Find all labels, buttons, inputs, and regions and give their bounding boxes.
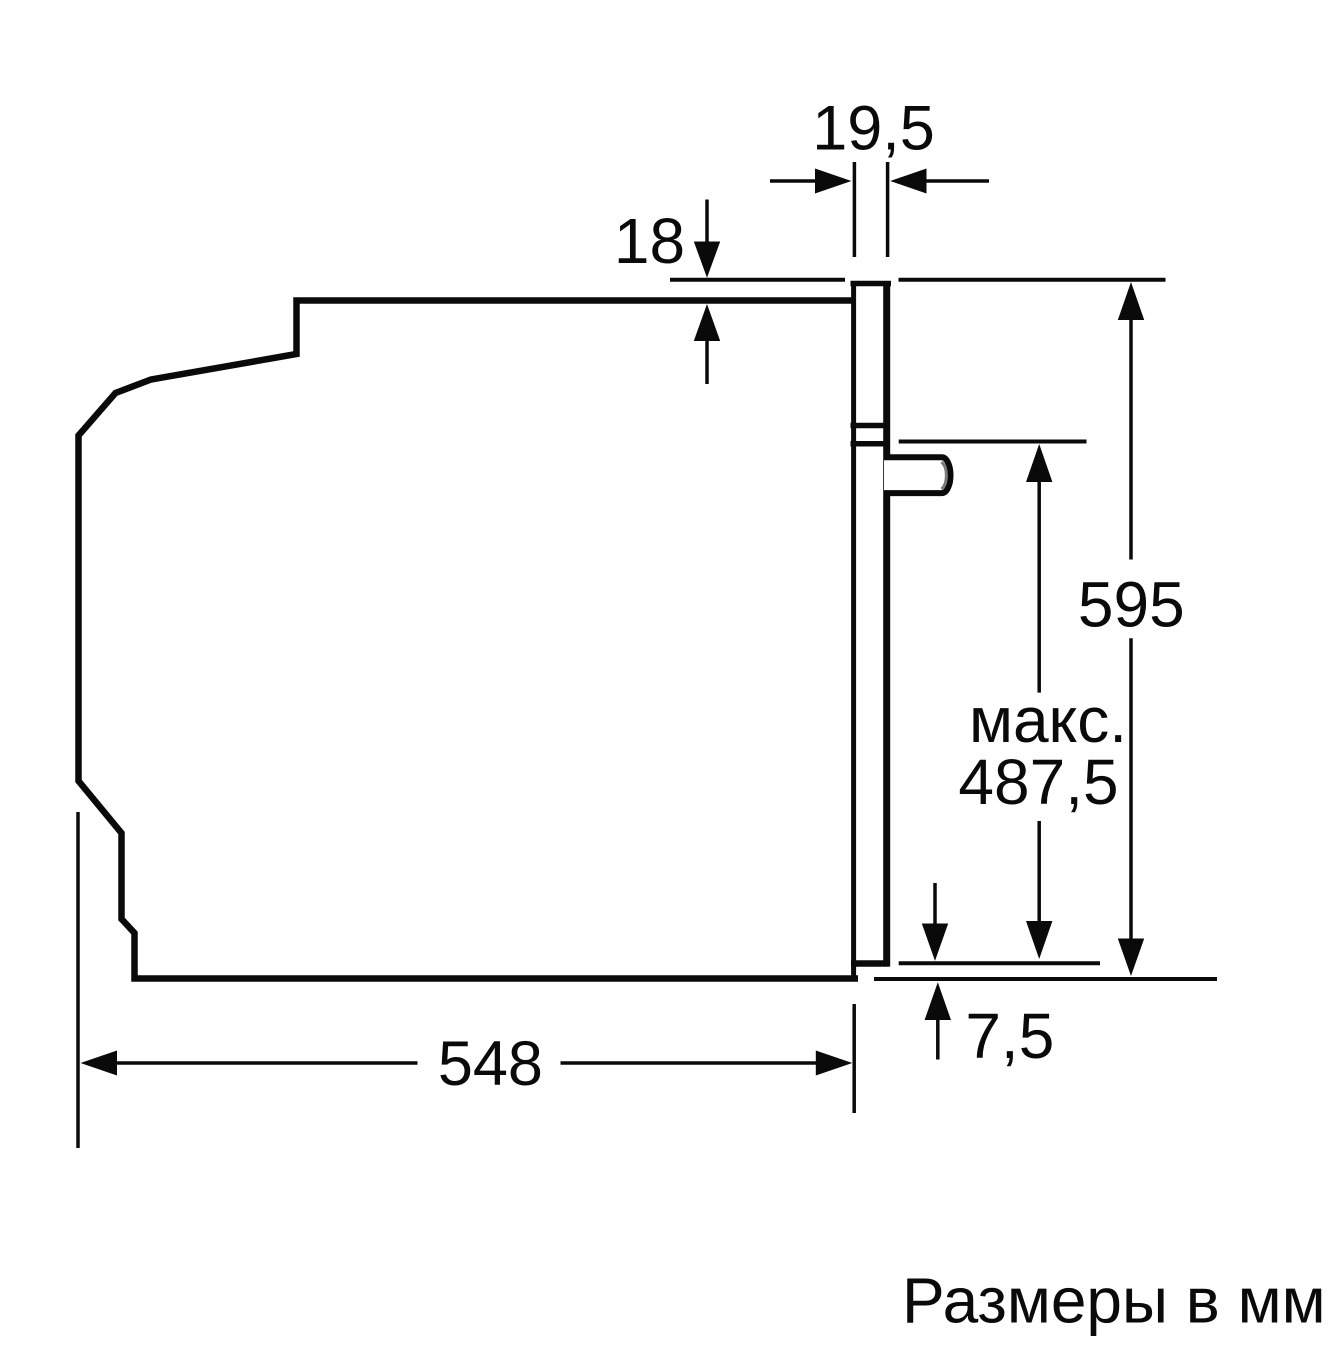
svg-text:7,5: 7,5 xyxy=(965,1000,1054,1072)
dim 19,5 left arrow xyxy=(770,179,818,183)
niche top line right segment xyxy=(899,278,1166,282)
svg-text:19,5: 19,5 xyxy=(812,94,935,164)
svg-text:595: 595 xyxy=(1078,569,1185,641)
dim 548 extension left xyxy=(76,812,80,1148)
niche top line left segment xyxy=(670,278,845,282)
oven body outline xyxy=(79,301,859,979)
door top edge xyxy=(851,281,892,287)
svg-text:18: 18 xyxy=(614,205,685,277)
dim 18 up arrow xyxy=(705,340,709,384)
svg-text:Размеры в мм: Размеры в мм xyxy=(902,1265,1326,1337)
dim 19,5 extension right xyxy=(886,162,890,257)
svg-text:548: 548 xyxy=(438,1029,543,1099)
hinge reference line xyxy=(899,440,1087,444)
dim 595 top arrow xyxy=(1118,282,1144,320)
hinge xyxy=(884,457,951,493)
door split upper edge xyxy=(851,423,890,429)
dim 19,5 right arrow xyxy=(924,179,989,183)
door left edge xyxy=(851,281,856,980)
door bottom reference line xyxy=(899,961,1100,965)
dim 487,5 bottom arrow xyxy=(1026,921,1052,959)
dim 548 right arrow xyxy=(561,1061,819,1065)
dim 7,5 down arrow xyxy=(933,883,937,925)
dim 548 extension right xyxy=(852,1004,856,1113)
dim 548 left arrow xyxy=(81,1051,118,1076)
dim 487,5 lower line xyxy=(1037,821,1041,922)
dim 487,5 top arrow xyxy=(1026,444,1052,482)
svg-text:487,5: 487,5 xyxy=(958,746,1118,818)
dim 19,5 extension left xyxy=(853,162,857,257)
door split lower edge xyxy=(851,441,891,447)
dim 595 lower line xyxy=(1129,638,1133,940)
door right edge xyxy=(883,281,890,967)
dim 7,5 up arrow xyxy=(925,982,951,1020)
dim 18 down arrow xyxy=(705,200,709,245)
door bottom edge xyxy=(851,960,890,967)
niche floor line xyxy=(874,977,1217,981)
dim 595 bottom arrow xyxy=(1118,939,1144,977)
hinge inner arc xyxy=(942,462,947,489)
